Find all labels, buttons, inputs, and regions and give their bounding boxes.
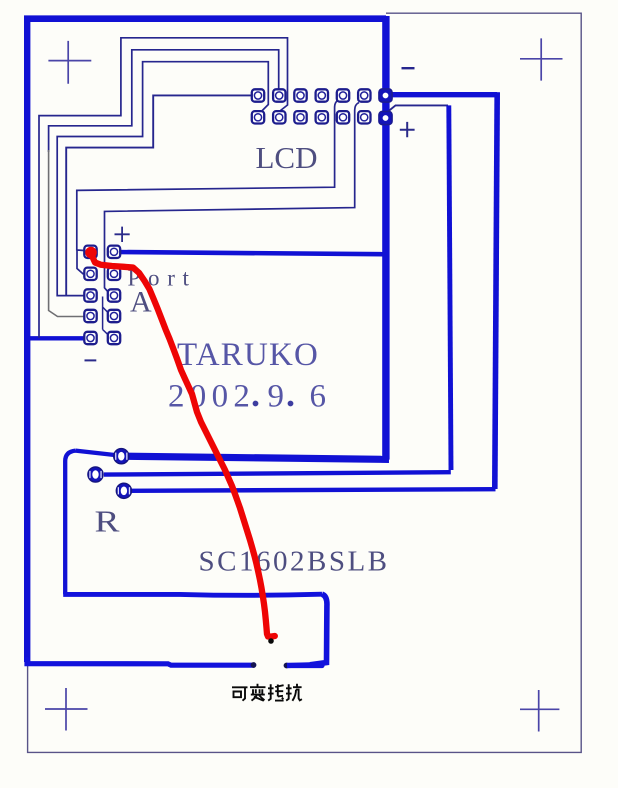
junction cap dot right of variable resistor pad [284,663,290,669]
red annotation wire from port row1 to variable resistor pad [85,247,275,637]
LCD pad col6 bottom [358,111,370,123]
pad R2 [88,467,103,482]
wire: bottom thick rail (right segment to var.resistor loop) [287,663,323,668]
fiducial crosshair bottom-left [45,688,88,731]
wire N3: LCD pad1-bottom to port row3 [57,62,268,296]
port pad col2 row5 [108,332,120,344]
wire N1: LCD pad2-bottom to port row1 (outer staircase) [39,38,288,338]
fiducial crosshair top-right [520,38,563,80]
svg-text:TARUKO: TARUKO [177,337,319,373]
pad R1 [88,449,132,499]
black via dot at variable resistor [268,638,274,644]
svg-text:R: R [95,504,120,539]
LCD pad col3 bottom [294,111,306,123]
wire: bottom thick rail (left segment) [27,660,254,666]
LCD pad col4 bottom [316,111,328,123]
port pad col1 row3 [84,289,96,301]
LCD module frame: thick right wall [382,90,389,460]
fiducial crosshair bottom-right [520,690,559,732]
pad R1 [114,449,129,464]
LCD pad col1 bottom [252,111,264,123]
svg-text:LCD: LCD [256,140,318,175]
svg-text:2002: 2002 [168,379,255,415]
wire N5: LCD pad5-bottom to port row2 [77,101,338,275]
LCD connector pads (7 cols x 2 rows) [252,89,392,125]
port pad col1 row1 [84,246,96,258]
port pad col1 row5 [84,332,96,344]
label 可変抵抗 (drawn strokes) [232,684,302,701]
wire: trace pad7-top to R3 (right vertical x496) [389,92,497,97]
wire: trace pad7-bottom to R2 (right vertical x449) [388,105,448,111]
LCD pad col5 bottom [337,111,349,123]
resistor block frame: rounded corner + left wall + bottom edge [65,451,75,595]
port pad col2 row4 [108,310,120,322]
label minus near pad7 [402,67,415,69]
port pad col2 row2 [108,268,120,280]
label plus near port row1 [115,227,130,242]
port pad col2 row3 [108,289,120,301]
wire: thick branch to port pad row5 [28,336,88,340]
label minus near port row5 [85,359,97,361]
LCD pad col6 top [358,89,370,101]
LCD pad col2 top [273,89,285,101]
LCD pad col5 top [337,89,349,101]
wire: thick run from pad R1 to right wall bottom [121,456,389,459]
svg-text:9: 9 [268,379,285,415]
ground frame: corner drop to LCD pad 7 [382,16,389,91]
wire N4: LCD pad1-top to port row3 (tee) [66,95,251,295]
port pad col2 row1 [108,246,120,258]
port pad col1 row4 [84,310,96,322]
LCD pad col3 top [294,89,306,101]
LCD module frame: top edge from port pad to right wall [114,252,386,254]
svg-text:SC1602BSLB: SC1602BSLB [199,546,390,578]
port pad col1 row2 [84,268,96,280]
LCD pad col7 top [379,89,392,102]
ground frame: thick left border [24,16,30,663]
LCD pad col7 bottom [379,111,392,124]
fiducial crosshair top-left [48,41,91,84]
ground frame: thick top border [24,15,386,22]
svg-text:6: 6 [310,379,327,415]
junction cap dot left of variable resistor pad [251,662,257,668]
port connector pads (2 cols x 5 rows) [84,246,120,345]
pad R3 [116,483,131,498]
LCD pad col2 bottom [273,111,285,123]
LCD pad col4 top [316,89,328,101]
wire N2: LCD pad2-top to port row4 (staircase, gray lower half) [49,50,279,152]
LCD pad col1 top [252,89,264,101]
wire N6: LCD pad6-bottom to port col2 rows 3-5 [105,103,360,295]
label plus near pad7 [400,122,415,137]
variable resistor hand-drawn loop right side [310,594,327,665]
